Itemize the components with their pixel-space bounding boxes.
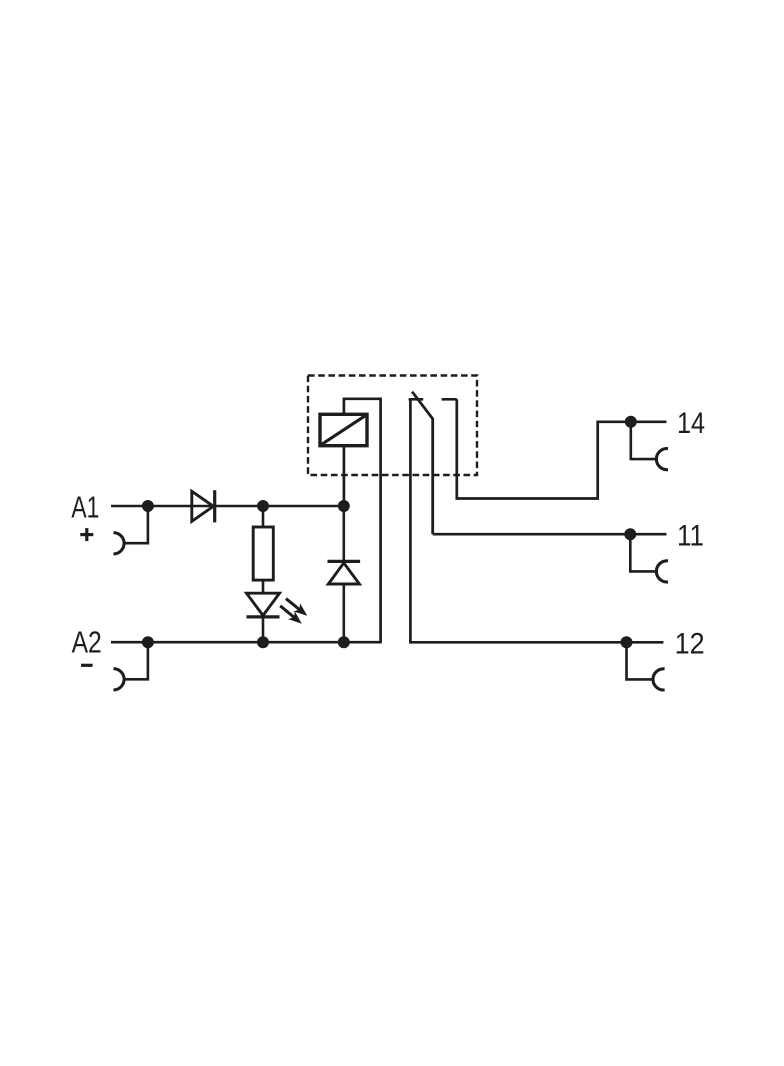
diode D1 (series, pointing right) [192, 490, 215, 522]
clamp arc 11 [656, 561, 668, 582]
wire freewheel diode bottom [342, 584, 345, 642]
clamp terminal A1 [124, 506, 148, 543]
node terminal 14 [625, 416, 637, 428]
NC fixed contact tick [409, 398, 424, 401]
NO fixed contact tick [442, 398, 457, 401]
wire freewheel diode top [342, 506, 345, 561]
switch blade (common) [412, 392, 433, 535]
clamp terminal 12 [627, 642, 654, 679]
clamp terminal 14 [631, 422, 657, 459]
coil diagonal [321, 415, 367, 445]
wire NO contact to terminal 14 [457, 399, 667, 498]
node A2/LED branch [257, 636, 269, 648]
wire common to terminal 11 [433, 533, 667, 536]
freewheel diode D2 (pointing up) [328, 561, 361, 584]
plus polarity mark [80, 528, 93, 541]
node terminal 11 [624, 528, 636, 540]
relay coil K1 [320, 414, 367, 445]
minus polarity mark [81, 664, 93, 667]
wire LED to A2 [262, 617, 265, 642]
svg-text:11: 11 [677, 520, 704, 553]
svg-text:12: 12 [675, 628, 705, 661]
wire coil top loop to A2 [344, 399, 381, 642]
LED emission arrow 1 [286, 599, 307, 616]
wire resistor to LED [262, 580, 265, 593]
resistor R1 [253, 527, 273, 580]
node A2 terminal [142, 636, 154, 648]
node terminal 12 [621, 636, 633, 648]
wire NC contact to terminal 12 [410, 399, 663, 642]
clamp arc A2 [114, 669, 125, 690]
svg-text:A2: A2 [72, 624, 102, 659]
wire resistor top [262, 506, 265, 527]
clamp terminal A2 [124, 642, 148, 679]
node A2/freewheel diode [338, 636, 350, 648]
LED (pointing down) [247, 593, 280, 617]
node A1/resistor branch [257, 500, 269, 512]
clamp arc 12 [653, 669, 665, 690]
dashed relay boundary box [308, 376, 477, 476]
clamp arc A1 [114, 533, 125, 554]
clamp terminal 11 [630, 534, 656, 571]
wire A2 horizontal [111, 641, 382, 644]
wire A1 horizontal [111, 505, 344, 508]
node A1/coil bottom [338, 500, 350, 512]
LED emission arrow 2 [280, 606, 302, 624]
wire coil bottom to A1 node [343, 446, 346, 506]
svg-text:A1: A1 [71, 489, 99, 524]
svg-text:14: 14 [677, 407, 705, 440]
node A1 terminal [142, 500, 154, 512]
clamp arc 14 [656, 449, 668, 470]
